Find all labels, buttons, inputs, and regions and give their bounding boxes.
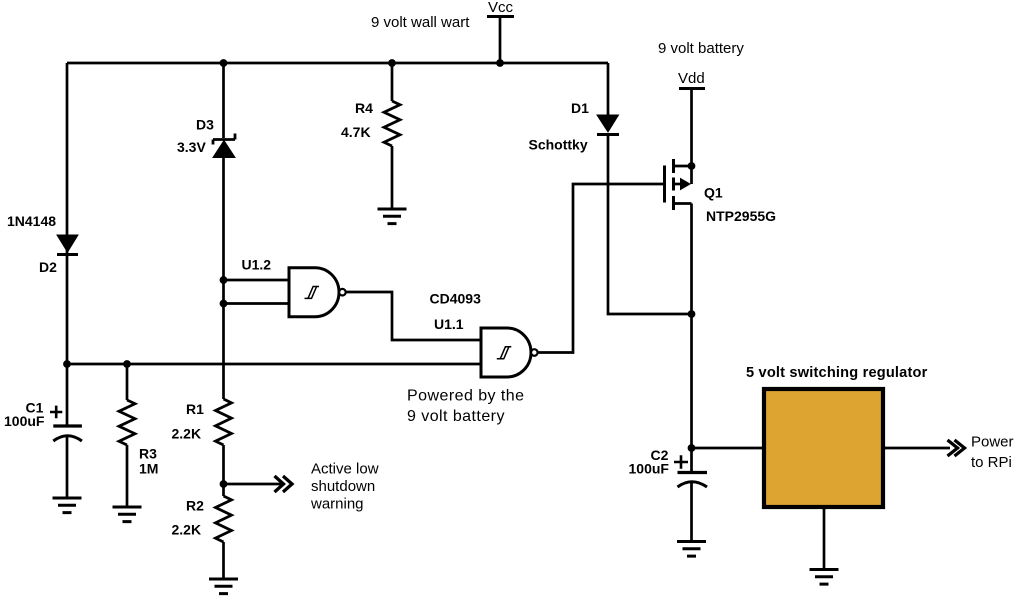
svg-text:Schottky: Schottky <box>529 137 588 153</box>
power symbol Vdd <box>678 70 705 89</box>
svg-text:Power: Power <box>971 434 1014 451</box>
ground R2 <box>209 579 238 594</box>
wire U1.2 inputs <box>224 280 290 304</box>
svg-text:100uF: 100uF <box>4 413 45 429</box>
svg-text:U1.1: U1.1 <box>434 316 464 332</box>
svg-text:R4: R4 <box>355 100 373 116</box>
wire D1 branch <box>608 63 692 314</box>
wire R3 branch <box>126 364 129 507</box>
capacitor C1 <box>50 406 82 441</box>
transistor Q1 <box>665 159 692 210</box>
svg-text:3.3V: 3.3V <box>177 139 206 155</box>
junction node rail R3 <box>123 360 131 368</box>
svg-text:9 volt wall wart: 9 volt wall wart <box>371 14 470 31</box>
svg-text:warning: warning <box>310 496 364 513</box>
wire C1 branch <box>66 364 69 498</box>
arrow shutdown warning <box>275 476 293 492</box>
junction node Q1 drain <box>688 162 696 170</box>
capacitor C2 <box>674 455 707 487</box>
label Powered by the 9 volt battery <box>407 388 524 426</box>
svg-text:NTP2955G: NTP2955G <box>706 208 776 224</box>
svg-text:Vdd: Vdd <box>678 70 705 87</box>
svg-text:1N4148: 1N4148 <box>7 213 56 229</box>
nand gate U1.1 <box>481 328 538 377</box>
wire Vcc stem <box>499 17 502 64</box>
svg-text:shutdown: shutdown <box>311 478 375 495</box>
svg-text:U1.2: U1.2 <box>242 257 272 273</box>
svg-text:2.2K: 2.2K <box>172 426 202 442</box>
diode D2 <box>57 235 78 255</box>
power symbol Vcc <box>487 0 514 17</box>
wire D3 column <box>222 63 225 399</box>
svg-text:9 volt battery: 9 volt battery <box>407 408 505 425</box>
svg-text:CD4093: CD4093 <box>430 291 482 307</box>
junction node U1.2 input top <box>220 276 228 284</box>
label Power to RPi <box>971 434 1014 472</box>
resistor R4 <box>384 101 400 146</box>
svg-text:R1: R1 <box>186 401 204 417</box>
junction node divider R1 R2 <box>220 480 228 488</box>
wire C2 to ground <box>690 483 693 541</box>
svg-text:1M: 1M <box>139 461 158 477</box>
resistor R1 <box>216 399 232 445</box>
wire R1-R2 link <box>222 445 225 496</box>
ground C1 <box>53 498 82 513</box>
wire U1.1 output route to gate <box>538 184 663 353</box>
svg-text:Powered by the: Powered by the <box>407 388 524 405</box>
wire left vertical D2 branch <box>66 63 69 364</box>
svg-text:9 volt battery: 9 volt battery <box>658 40 744 57</box>
zener diode D3 <box>213 134 235 158</box>
wire R2 to ground <box>222 542 225 579</box>
junction node top Vcc <box>496 59 504 67</box>
junction node C2 regulator <box>688 444 696 452</box>
junction node U1.2 input bottom <box>220 300 228 308</box>
svg-text:100uF: 100uF <box>629 461 670 477</box>
svg-text:R3: R3 <box>139 446 157 462</box>
arrow power output <box>948 440 965 456</box>
svg-text:2.2K: 2.2K <box>172 522 202 538</box>
ground R4 <box>378 209 407 224</box>
label Active low shutdown warning <box>310 461 379 513</box>
wire U1.2 output route <box>346 292 481 340</box>
svg-text:D2: D2 <box>39 259 57 275</box>
wire top rail Vcc <box>67 62 608 65</box>
wire R4 branch <box>391 63 394 209</box>
junction node top D3 <box>220 59 228 67</box>
resistor R2 <box>216 496 232 542</box>
svg-text:5 volt switching regulator: 5 volt switching regulator <box>746 365 928 381</box>
wire C2 node to regulator <box>692 447 763 450</box>
svg-text:R2: R2 <box>186 498 204 514</box>
ground R3 <box>113 507 142 522</box>
regulator box <box>764 389 883 507</box>
resistor R3 <box>119 400 135 445</box>
wire regulator ground <box>823 509 826 569</box>
ground regulator <box>810 570 839 585</box>
nand gate U1.2 <box>289 268 346 317</box>
svg-text:D3: D3 <box>196 117 214 133</box>
svg-text:to RPi: to RPi <box>971 454 1012 471</box>
wire mid-left horizontal rail <box>67 363 481 366</box>
junction node top R4 <box>388 59 396 67</box>
wire Vdd stem to Q1 drain <box>690 89 693 185</box>
wire Q1 source down to C2 node <box>690 204 693 473</box>
svg-text:Q1: Q1 <box>704 185 723 201</box>
diode D1 <box>597 115 619 135</box>
svg-text:Active low: Active low <box>311 461 379 478</box>
junction node D1 output <box>688 310 696 318</box>
svg-text:Vcc: Vcc <box>488 0 514 16</box>
wire shutdown arrow <box>224 483 282 486</box>
wire regulator output <box>885 447 950 450</box>
svg-text:D1: D1 <box>571 100 589 116</box>
svg-text:4.7K: 4.7K <box>341 124 371 140</box>
ground C2 <box>677 542 706 557</box>
junction node rail C1 <box>63 360 71 368</box>
